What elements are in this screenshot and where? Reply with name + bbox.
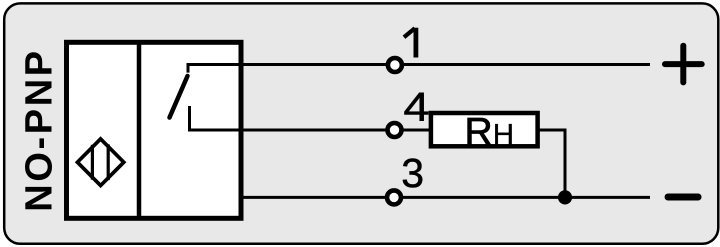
junction dot <box>558 190 572 204</box>
svg-text:H: H <box>493 119 514 152</box>
switch lower contact <box>190 106 244 130</box>
switch blade <box>170 76 188 118</box>
plus terminal <box>665 46 702 83</box>
wire 3 <box>240 196 650 199</box>
pin label 1 <box>404 28 416 58</box>
terminal 1 <box>388 58 402 72</box>
svg-text:NO-PNP: NO-PNP <box>18 48 60 211</box>
svg-text:4: 4 <box>403 85 429 130</box>
resistor RH body <box>431 113 538 146</box>
sensor symbol diamond <box>77 139 123 186</box>
terminal 3 <box>387 190 401 204</box>
sensor divider <box>137 42 142 218</box>
sensor body <box>67 42 242 218</box>
diamond inner line right <box>107 144 110 180</box>
resistor right lead <box>538 130 565 197</box>
terminal 4 <box>388 123 402 137</box>
diamond inner line left <box>91 145 94 180</box>
svg-text:R: R <box>465 111 493 154</box>
wire 1 <box>240 63 650 66</box>
switch upper contact <box>188 65 243 73</box>
wire 4 <box>240 129 431 132</box>
minus terminal <box>668 194 698 201</box>
svg-text:3: 3 <box>401 150 424 196</box>
